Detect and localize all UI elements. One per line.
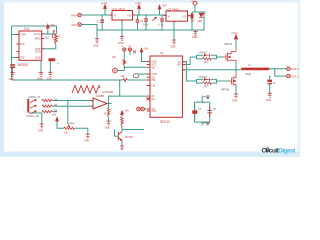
capacitor C2 (reg1 out)	[136, 19, 144, 23]
node junction at 137.5,15	[137, 14, 138, 15]
node junction at 47.8,34	[47, 33, 48, 34]
inductor L1	[241, 63, 270, 76]
ground (under C 555 left)	[9, 68, 15, 81]
capacitor C6 (output)	[267, 80, 276, 85]
capacitor C1 (reg1 in)	[97, 20, 104, 24]
potentiometer RV1	[64, 122, 75, 135]
svg-text:-: -	[94, 99, 95, 103]
logo CircuitDigest	[262, 147, 297, 154]
node junction at 186.4,61.8	[186, 61, 187, 62]
resistor R12 (row3)	[42, 110, 58, 113]
svg-text:NC: NC	[152, 98, 156, 101]
svg-text:wiper: wiper	[69, 122, 75, 125]
node junction at 204,30	[203, 29, 204, 30]
ground (audio bar)	[38, 124, 44, 133]
power flag +5V (pot)	[52, 114, 59, 122]
transistor Q2 IRF540 (high side)	[224, 43, 237, 62]
svg-text:100u: 100u	[143, 23, 149, 26]
frame band right	[298, 0, 301, 157]
power flag +12V (left of reg1)	[101, 1, 108, 9]
node junction at 124.3,67.3	[124, 67, 125, 68]
ground (low side source)	[232, 94, 238, 103]
wire q1 collector chain	[121, 115, 123, 147]
power flag +5V (555)	[46, 23, 54, 29]
node junction at 67.8,100.5	[67, 100, 68, 101]
svg-text:OUT-1: OUT-1	[291, 74, 300, 78]
wire circles pair stub	[144, 108, 146, 110]
svg-text:4R7: 4R7	[204, 86, 209, 89]
wire pot right to gnd	[74, 128, 88, 134]
resistor R13 (divider)	[104, 108, 110, 118]
svg-text:IRF540: IRF540	[224, 43, 233, 46]
wire led lamp stem	[192, 5, 195, 12]
connector OUT-2	[287, 67, 300, 71]
wire j1 circle to node	[118, 70, 125, 72]
net marker (c45 bottom)	[203, 122, 210, 125]
wire +12V arrow stem right	[138, 9, 140, 15]
wire reg2 out to led loop	[188, 15, 193, 17]
frame band left	[0, 0, 4, 157]
wire M2 source to gnd	[235, 86, 237, 95]
wire power rail	[97, 29, 204, 31]
node junction at 192,30	[191, 29, 192, 30]
node junction at 11.6,57.5	[11, 57, 12, 58]
diode D2 UF4007 (upper)	[199, 52, 211, 57]
svg-text:25uH: 25uH	[245, 72, 251, 76]
wire lower gate loop	[197, 79, 217, 81]
net marker (c45 top)	[203, 96, 210, 99]
wire c4 leads	[194, 102, 196, 122]
svg-text:GND: GND	[38, 130, 44, 133]
resistor R10 (row1)	[42, 98, 58, 101]
svg-text:BC547: BC547	[126, 136, 134, 139]
wire comparator r2 row	[52, 105, 93, 107]
wire q1 base	[115, 130, 119, 137]
svg-text:GND: GND	[9, 78, 15, 81]
node junction at 162,30	[161, 29, 162, 30]
node junction at 102.2,15	[102, 14, 103, 15]
connector VIN- J2	[71, 23, 81, 27]
waveform annotation sawtooth	[72, 86, 114, 95]
ground (output cap)	[266, 93, 272, 102]
svg-text:HIN: HIN	[152, 79, 156, 82]
power flag +5V (reg2)	[158, 4, 167, 10]
svg-text:GND: GND	[118, 42, 124, 45]
wire +5V flag stem	[47, 29, 49, 35]
node junction at 274.8,68.8	[274, 68, 275, 69]
svg-text:AUDIO_IN: AUDIO_IN	[28, 95, 40, 99]
svg-text:GND: GND	[93, 44, 99, 47]
node junction at 202.2,122.1	[202, 122, 203, 123]
node junction at 119.7,96.1	[119, 96, 120, 97]
connector VIN+ J1	[71, 13, 82, 17]
wire cap C3b stubs	[145, 15, 147, 30]
wire pot left	[57, 121, 64, 128]
reset arrow (555 /RES)	[53, 31, 55, 39]
wire COM row	[139, 73, 147, 75]
svg-text:OUT: OUT	[35, 47, 41, 51]
wire cap C2 stubs	[137, 15, 139, 30]
ground (pot)	[84, 134, 90, 143]
resistor R (led)	[191, 14, 196, 23]
connector AUDIO_IN bar	[26, 95, 40, 118]
wire 555 frame left vertical	[11, 26, 13, 80]
svg-text:LM358: LM358	[96, 94, 104, 98]
wire cap C6 stub	[269, 76, 271, 93]
power flag +12V (right of reg1)	[135, 1, 142, 9]
wire input VIN- down	[82, 25, 98, 39]
wire +5V flag stem reg2	[159, 10, 161, 16]
resistor R8 (lower gate)	[203, 82, 212, 89]
no-connect X on pin	[147, 97, 150, 100]
nc ellipse marker	[133, 74, 139, 78]
svg-text:+12V: +12V	[135, 1, 142, 5]
node junction at 119.7,80	[119, 79, 120, 80]
svg-text:LIN: LIN	[152, 85, 156, 88]
regulator IC2 7805	[164, 8, 191, 23]
svg-text:VB: VB	[152, 66, 156, 69]
lamp L2 (indicator)	[191, 1, 198, 5]
ground (under C3)	[46, 72, 52, 80]
svg-text:GND: GND	[84, 140, 90, 143]
wire out1 branch	[275, 69, 287, 76]
wire divider resistor leads	[108, 104, 110, 122]
node junction at 11.6,34.5	[11, 34, 12, 35]
svg-text:/RES: /RES	[35, 37, 41, 41]
wire c45 top stub	[201, 96, 203, 103]
svg-text:TRI: TRI	[20, 56, 25, 60]
svg-text:IC2 7805: IC2 7805	[167, 8, 180, 12]
wire comparator out up and to IC	[109, 96, 147, 103]
svg-text:+2.5SAW: +2.5SAW	[102, 90, 114, 94]
regulator IC1 7812	[110, 7, 136, 22]
power flag +5V (Q1)	[121, 110, 130, 115]
svg-text:+VCC: +VCC	[231, 32, 238, 35]
wire TRI to frame	[12, 57, 17, 59]
svg-text:VIN+: VIN+	[71, 13, 78, 17]
svg-text:VSS: VSS	[152, 110, 157, 113]
svg-text:GND: GND	[170, 46, 176, 49]
wire led gnd stub	[195, 30, 197, 32]
svg-text:IC1 7812: IC1 7812	[113, 7, 126, 11]
svg-text:DIS: DIS	[20, 42, 25, 46]
wire led loop	[191, 12, 193, 30]
svg-text:OUT-2: OUT-2	[291, 67, 300, 71]
wire 555 frame top	[12, 26, 57, 34]
op-amp IC3 comparator	[91, 94, 107, 109]
capacitor C4b (reg2 in b)	[159, 18, 164, 26]
frame band bottom	[0, 152, 300, 158]
frame band top	[0, 0, 300, 3]
power flag +VCC (bridge)	[231, 32, 238, 40]
node junction at 174,30	[173, 29, 174, 30]
svg-text:UF4007: UF4007	[199, 76, 208, 79]
svg-text:THR: THR	[20, 33, 26, 37]
node junction at 202.2,102.1	[202, 102, 203, 103]
wire audio bar gnd	[29, 113, 42, 124]
svg-text:IC4: IC4	[24, 27, 29, 31]
resistor R7 (upper gate)	[203, 58, 212, 65]
wire cap C1 stubs	[101, 15, 103, 30]
led D1	[198, 11, 206, 23]
op-amp 555 section : IC4 NE555	[17, 27, 45, 67]
wire opamp out	[107, 103, 112, 105]
node junction at 162,15	[161, 14, 162, 15]
svg-text:+12V: +12V	[101, 1, 108, 5]
wire c45 loop	[195, 102, 210, 125]
wire VCC pin to resistor top	[42, 33, 57, 35]
svg-text:+5V: +5V	[144, 48, 149, 51]
wire reg1 gnd stub	[121, 20, 123, 36]
svg-text:GND: GND	[37, 78, 43, 81]
wire sawtooth net right to IC	[128, 79, 147, 81]
wire 555 gnd pin down	[40, 60, 42, 72]
wire upper gate to M1	[217, 56, 224, 58]
wire cap C3 down	[49, 61, 51, 73]
node junction at 139,15	[138, 14, 139, 15]
svg-text:GND: GND	[192, 36, 198, 39]
resistor R6 (VB pullup)	[112, 56, 126, 66]
wire THR to frame	[12, 34, 17, 36]
wire VS rail	[183, 69, 242, 71]
gate driver U1 IR2110	[147, 51, 185, 124]
ground (reg1)	[118, 36, 124, 45]
node junction at 146,15	[145, 14, 146, 15]
wire vb row	[124, 66, 146, 71]
connector pad P1 (HIN jumper)	[121, 46, 126, 51]
node junction at 122,30	[121, 29, 122, 30]
ground (555 gnd pin)	[37, 73, 43, 81]
svg-text:UF4007: UF4007	[199, 52, 208, 55]
connector pads VS pair	[137, 107, 145, 111]
svg-text:HO: HO	[177, 64, 181, 67]
polarity arrow (cap marker)	[153, 17, 157, 21]
resistor R14 (Q1 collector)	[121, 117, 123, 127]
svg-text:+5V: +5V	[52, 114, 57, 117]
svg-text:LED: LED	[198, 20, 203, 23]
resistor R11 (row2)	[42, 104, 58, 107]
wire sawtooth net long	[12, 79, 123, 81]
wire reg2 gnd stub	[173, 21, 175, 40]
connector pad P2	[128, 46, 132, 51]
wire +12V arrow stem left	[104, 9, 106, 15]
ground (led loop)	[192, 32, 198, 39]
ground (divider)	[105, 121, 111, 130]
ground (reg2)	[170, 40, 176, 49]
wire upper gate loop	[197, 55, 217, 57]
svg-text:+5V: +5V	[191, 1, 195, 3]
capacitor C3b (reg2 in a)	[143, 18, 149, 26]
wire q1 collector to right	[122, 129, 144, 131]
wire R1 bottom to OUT pin	[42, 44, 56, 49]
svg-text:VO: VO	[127, 14, 131, 18]
wire M2 drain up	[235, 70, 237, 73]
svg-text:VI: VI	[168, 15, 171, 19]
wire input VIN+ to reg	[82, 14, 113, 16]
svg-text:GND: GND	[35, 56, 41, 60]
svg-text:VO: VO	[182, 15, 186, 19]
node junction at 236,69.8	[235, 69, 236, 70]
node junction at 55.8,34	[55, 33, 56, 34]
svg-text:4R7: 4R7	[204, 61, 209, 64]
power flag +5V (VDD)	[140, 48, 148, 53]
svg-text:+5V: +5V	[50, 23, 55, 27]
svg-text:+5V: +5V	[125, 110, 130, 113]
transistor Q3 IRF540 (low side)	[221, 73, 236, 92]
svg-text:VI: VI	[114, 14, 117, 18]
svg-text:VCC+: VCC+	[34, 32, 41, 36]
connector OUT-1	[287, 74, 300, 78]
wire M1 source down	[235, 62, 237, 70]
svg-text:IR2110: IR2110	[160, 120, 170, 124]
wire LO to lower gate	[183, 62, 197, 81]
node junction at 97,30	[96, 29, 97, 30]
node junction at 108.6,103.5	[108, 103, 109, 104]
wire lower gate to M2	[217, 80, 230, 82]
node junction at 102.2,30	[102, 29, 103, 30]
wire HO to upper gate	[183, 57, 197, 65]
wire L1 to outputs	[270, 68, 287, 70]
wire r3 row stub	[52, 111, 57, 113]
wire saw net drop	[119, 80, 121, 96]
svg-text:NE555: NE555	[18, 63, 28, 67]
svg-text:U1: U1	[160, 51, 164, 55]
connector J3 (SD)	[113, 68, 118, 73]
node junction at 146,30	[145, 29, 146, 30]
wire comparator r1 row	[52, 100, 93, 102]
capacitor C3 (555 right)	[48, 58, 59, 65]
wire cap C4b stubs	[161, 15, 163, 30]
svg-text:GND: GND	[46, 77, 52, 80]
svg-text:CONN_AB: CONN_AB	[26, 114, 39, 118]
ground (Q1 emitter)	[120, 146, 124, 150]
node junction at 269.7,76.1	[269, 76, 270, 77]
transistor Q1 BC547	[118, 132, 133, 141]
svg-text:GND: GND	[266, 99, 272, 102]
wire vdd arrow path	[142, 52, 147, 62]
diode D3 UF4007 (lower)	[199, 76, 211, 81]
svg-text:4k7: 4k7	[45, 37, 50, 40]
svg-text:VIN-: VIN-	[71, 23, 77, 27]
capacitor C (555 left, on frame)	[10, 64, 15, 68]
svg-text:IRF540: IRF540	[221, 89, 230, 92]
svg-text:GND: GND	[105, 127, 111, 130]
capacitor C4	[192, 108, 201, 114]
no-connect X marker	[133, 51, 136, 54]
wire ic circle1 stub	[123, 51, 125, 59]
resistor R1 (555 charge)	[45, 34, 61, 45]
svg-text:12V: 12V	[128, 46, 132, 48]
wire ic circle2 stub	[129, 51, 131, 55]
svg-text:R1: R1	[58, 35, 62, 39]
ground (input)	[93, 39, 99, 48]
wire pot wiper vertical	[67, 101, 69, 124]
wire reg1 out	[133, 14, 167, 16]
wire vcc arrow stem	[235, 40, 237, 48]
resistor R3 (sawtooth inline)	[121, 75, 128, 82]
svg-text:0.1u: 0.1u	[159, 23, 164, 26]
capacitor C5	[207, 107, 216, 118]
svg-text:GND: GND	[232, 100, 238, 103]
